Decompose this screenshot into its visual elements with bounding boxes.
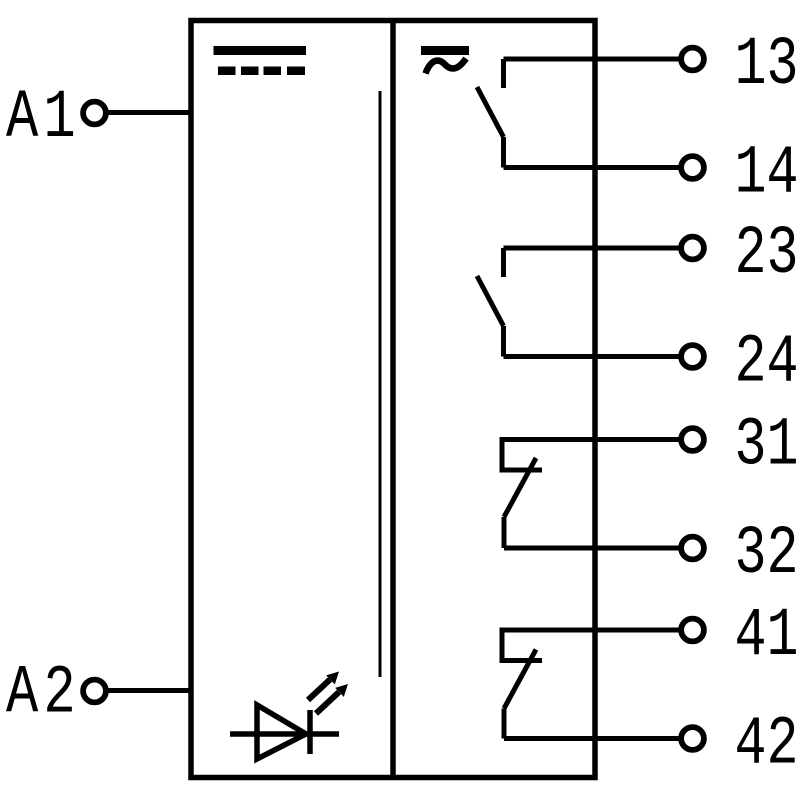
NO contact 13-14 fixed stub bbox=[501, 59, 506, 88]
relay enclosure box bbox=[191, 21, 595, 778]
NC contact 41-42 lower stub bbox=[502, 709, 507, 739]
terminal 42 circle bbox=[681, 727, 704, 750]
NO contact 23-24 moving blade bbox=[477, 276, 504, 326]
wire contact 13 bbox=[504, 57, 683, 62]
svg-text:42: 42 bbox=[735, 705, 799, 783]
wire contact 32 bbox=[504, 546, 682, 551]
terminal 31 circle bbox=[681, 428, 704, 451]
NO contact 23-24 fixed stub bbox=[501, 248, 506, 277]
wire A2 to box bbox=[105, 688, 193, 693]
svg-text:41: 41 bbox=[735, 597, 799, 675]
LED D1 anode lead bbox=[230, 731, 339, 737]
terminal 23 circle bbox=[681, 237, 704, 260]
terminal 32 circle bbox=[681, 537, 704, 560]
LED D1 emission arrow 2 bbox=[316, 684, 348, 714]
coil/contact divider wall bbox=[390, 18, 396, 780]
terminal A2 circle bbox=[83, 680, 106, 703]
LED D1 emission arrow 1 bbox=[308, 672, 339, 701]
wire contact 23 bbox=[504, 246, 683, 251]
LED D1 triangle bbox=[257, 705, 306, 759]
svg-text:14: 14 bbox=[735, 134, 799, 212]
DC supply symbol dashed bar bbox=[218, 67, 305, 76]
NO contact 23-24 lower stub bbox=[501, 326, 506, 357]
svg-text:24: 24 bbox=[735, 323, 799, 401]
NC contact 31-32 lower stub bbox=[502, 517, 507, 548]
AC symbol bar bbox=[421, 46, 469, 55]
NC contact 41-42 fixed stub bbox=[502, 628, 542, 661]
terminal 14 circle bbox=[681, 156, 704, 179]
terminal A1 circle bbox=[83, 102, 106, 125]
svg-text:13: 13 bbox=[735, 26, 799, 104]
svg-text:32: 32 bbox=[735, 515, 799, 593]
wire contact 14 bbox=[504, 165, 683, 170]
terminal 41 circle bbox=[681, 619, 704, 642]
terminal 24 circle bbox=[681, 345, 704, 368]
NC contact 31-32 moving blade bbox=[504, 458, 536, 517]
wire A1 to box bbox=[105, 110, 193, 115]
wire contact 42 bbox=[504, 736, 682, 741]
terminal 13 circle bbox=[681, 48, 704, 71]
wire contact 24 bbox=[504, 354, 683, 359]
NC contact 41-42 moving blade bbox=[504, 650, 536, 709]
isolation barrier line bbox=[379, 91, 382, 677]
wire contact 41 bbox=[502, 628, 682, 633]
LED D1 cathode bar bbox=[307, 710, 313, 754]
svg-text:23: 23 bbox=[735, 215, 799, 293]
svg-text:31: 31 bbox=[735, 406, 799, 484]
NC contact 31-32 fixed stub bbox=[502, 437, 542, 470]
NO contact 13-14 moving blade bbox=[477, 87, 504, 137]
NO contact 13-14 lower stub bbox=[501, 137, 506, 168]
AC symbol tilde bbox=[426, 59, 467, 74]
wire contact 31 bbox=[502, 437, 682, 442]
DC supply symbol solid bar bbox=[214, 46, 307, 55]
